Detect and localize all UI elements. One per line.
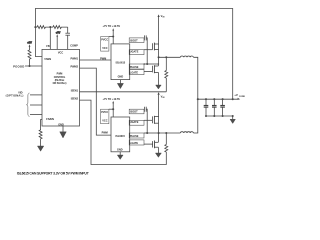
svg-text:VCC: VCC [102,47,107,50]
svg-text:+7V TO +12.5V: +7V TO +12.5V [102,97,120,101]
svg-text:LGATE: LGATE [130,72,139,75]
inductor L1 upper [180,56,193,57]
svg-text:PWM: PWM [57,74,63,76]
wire pvcc branch lower [109,108,113,110]
svg-text:COMP: COMP [70,44,78,47]
svg-text:OR ISL65xx): OR ISL65xx) [53,83,67,85]
wire ISEN2 [80,100,167,164]
svg-text:ISL6615: ISL6615 [116,61,126,64]
svg-text:GND: GND [58,123,64,126]
resistor R5 isen1 [165,71,168,92]
resistor R3 pgood pullup [28,48,31,66]
ground controller [60,132,67,138]
node pvcc branch lower [112,108,114,110]
svg-text:FB: FB [46,45,50,48]
node isen tap upper [165,56,167,58]
svg-text:PHASE: PHASE [130,135,139,138]
driver U2 PHASE pin cell [129,64,144,69]
node vcore feedback junction [232,98,234,100]
wire lowfet source lower [157,147,159,153]
wire COMP drop [67,27,69,33]
wire PHASE upper [144,63,158,65]
driver U3 UGATE pin cell [129,120,144,125]
resistor R1 feedback [35,26,50,29]
wire BOOT lower [143,108,145,110]
power VIN arrow upper [158,14,166,44]
power +5V PGOOD pullup arrow [27,42,32,48]
node ground bus end [232,115,234,117]
node pvcc branch upper [112,35,114,37]
svg-text:VSEN: VSEN [44,58,51,61]
wire VCORE bus [198,98,239,100]
wire output lower [193,99,197,133]
wire LGATE lower [144,143,153,145]
svg-text:+V: +V [234,93,238,97]
power VIN arrow lower [158,92,166,116]
resistor R6 isen2 [165,145,168,156]
capacitor C2 boot upper [144,35,146,40]
resistor R2 comp [50,26,67,29]
node boot phase junction lower [146,132,148,134]
svg-text:IN: IN [163,97,166,99]
wire FB pin drop [49,27,51,49]
svg-text:ISL6615 CAN SUPPORT 3.3V OR 5V: ISL6615 CAN SUPPORT 3.3V OR 5V PWM INPUT [17,172,90,176]
label +VCORE arrow [234,93,245,100]
node isen tap lower [165,132,167,134]
svg-text:UGATE: UGATE [130,121,139,124]
ground lower driver [117,152,123,160]
driver U2 PVCC pin cell [101,37,109,52]
svg-text:(ISL65xx: (ISL65xx [55,80,65,82]
wire PWM2 [80,68,112,135]
svg-text:VCC: VCC [102,120,107,123]
svg-text:CONTROL: CONTROL [54,77,66,79]
inductor L2 lower [180,132,193,133]
power +5V VCC arrow [56,31,61,49]
svg-text:VCC: VCC [58,52,63,55]
svg-text:PWM: PWM [102,131,108,134]
driver U3 PHASE pin cell [129,133,144,138]
svg-text:GND: GND [117,149,123,152]
node FB divider junction [34,26,36,28]
capacitor C3 boot lower [144,107,146,112]
wire isen drop upper [165,57,167,70]
capacitor C1 comp [65,32,70,34]
driver U3 VCC pin cell [102,120,107,123]
wire ISEN1 [80,91,167,93]
wire phase rail lower [159,132,181,134]
driver U2 VCC pin cell [102,47,107,50]
label controller pins and body [44,44,78,126]
wire BOOT upper [143,37,145,39]
wire PWM1 [80,59,112,61]
driver U3 LGATE pin cell [129,140,144,145]
wire UGATE lower [144,119,152,121]
wire lowfet source upper [157,72,159,85]
svg-text:ISL6615: ISL6615 [115,135,125,138]
svg-text:UGATE: UGATE [130,51,139,54]
svg-text:PWM: PWM [100,58,106,61]
driver U2 body ISL6615 [111,44,130,80]
capacitor C6 output [220,98,225,117]
svg-text:PVCC: PVCC [101,111,108,114]
resistor R4 fs [39,129,42,146]
svg-text:LGATE: LGATE [130,142,139,145]
wire output upper [193,57,197,99]
node boot phase junction upper [146,63,148,65]
wire isen drop lower [165,133,167,145]
svg-text:IN: IN [163,17,166,19]
svg-text:PWM1: PWM1 [71,57,79,60]
power +7V TO +12.5V upper [102,24,120,44]
svg-text:+5V: +5V [56,31,61,34]
node FB junction [49,26,51,28]
transistor Q3 lower high-side [152,116,158,124]
driver U3 PVCC pin cell [101,109,109,124]
transistor Q4 lower low-side [153,133,159,148]
driver U2 UGATE pin cell [129,50,144,55]
ground upper driver [117,80,123,89]
transistor Q2 upper low-side [152,57,158,73]
svg-text:ISEN1: ISEN1 [71,89,79,92]
svg-text:PVCC: PVCC [101,38,108,41]
node output join [197,98,199,100]
wire boot to phase lower [146,109,147,133]
op-amp U1 PWM controller box [42,49,80,126]
svg-text:+5V: +5V [27,42,32,45]
wire phase node lower [158,123,160,133]
wire phase rail upper [159,56,181,58]
wire ground bus [206,115,233,117]
ground upper low-side fet [156,85,162,89]
driver U2 LGATE pin cell [129,70,144,75]
svg-text:BOOT: BOOT [130,39,138,42]
node phase pin junction upper [158,63,160,65]
svg-text:PGOOD: PGOOD [13,65,24,69]
power +7V TO +12.5V lower [102,97,120,117]
label VID optional [6,91,24,98]
wire VID stubs [26,93,42,116]
node phase upper [158,56,160,58]
svg-text:CORE: CORE [239,96,246,98]
wire controller gnd [62,126,64,132]
svg-text:FS/EN: FS/EN [46,117,54,121]
node phase lower [158,132,160,134]
svg-text:ISEN2: ISEN2 [71,98,79,101]
wire top feedback from VOUT to divider [35,9,232,100]
wire UGATE upper [144,49,152,51]
ground fs resistor [37,146,43,151]
driver U3 BOOT pin cell [129,109,144,114]
capacitor C4 output [204,98,209,117]
driver U2 BOOT pin cell [129,38,144,43]
svg-text:BOOT: BOOT [130,111,138,114]
ground lower low-side fet [155,153,161,157]
wire pvcc branch upper [109,36,113,38]
svg-text:PHASE: PHASE [130,66,139,69]
wire LGATE upper [144,71,152,73]
svg-text:+7V TO +12.5V: +7V TO +12.5V [102,24,120,28]
svg-text:GND: GND [118,75,124,78]
wire FS/EN to resistor [41,120,42,130]
ground output bank [230,116,235,124]
wire PGOOD [25,65,42,67]
driver U3 body ISL6615 [111,117,130,152]
svg-text:(OPTIONAL): (OPTIONAL) [6,94,24,98]
transistor Q1 upper high-side [152,43,158,51]
capacitor C5 output [212,98,217,117]
wire phase node upper [158,50,160,58]
wire boot to phase upper [146,38,147,64]
svg-text:PWM2: PWM2 [71,65,79,68]
wire PHASE lower [144,132,158,134]
node PGOOD junction [28,65,30,67]
